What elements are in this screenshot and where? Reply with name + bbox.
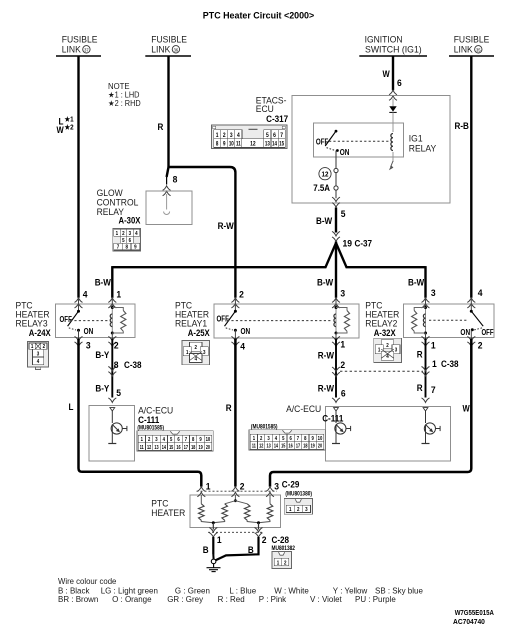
svg-text:2: 2 [386, 342, 389, 349]
svg-text:OFF: OFF [482, 327, 494, 337]
svg-text:2: 2 [240, 481, 245, 491]
svg-text:B-Y: B-Y [95, 350, 109, 361]
svg-text:19: 19 [198, 444, 203, 450]
svg-text:AC704740: AC704740 [453, 618, 485, 626]
svg-text:16: 16 [176, 444, 181, 450]
svg-text:1: 1 [216, 132, 219, 139]
svg-text:14: 14 [162, 444, 167, 450]
svg-text:BR : Brown: BR : Brown [58, 595, 99, 604]
svg-text:10: 10 [206, 437, 211, 444]
svg-text:1: 1 [116, 289, 121, 299]
svg-text:1: 1 [206, 481, 211, 491]
svg-text:W7G55E015A: W7G55E015A [455, 609, 494, 617]
svg-text:2: 2 [262, 535, 267, 545]
svg-text:7: 7 [280, 132, 283, 139]
svg-text:R-W: R-W [318, 350, 335, 361]
svg-text:9: 9 [134, 244, 137, 251]
svg-text:FUSIBLE: FUSIBLE [151, 34, 187, 44]
svg-text:2: 2 [148, 437, 151, 444]
svg-text:10: 10 [229, 141, 234, 148]
svg-text:1: 1 [186, 349, 189, 356]
svg-text:ON: ON [460, 327, 470, 337]
svg-text:2: 2 [194, 345, 197, 352]
svg-text:5: 5 [341, 209, 346, 219]
svg-text:4: 4 [240, 341, 245, 351]
svg-text:V : Violet: V : Violet [310, 595, 342, 604]
svg-text:5: 5 [266, 132, 269, 139]
svg-text:FUSIBLE: FUSIBLE [62, 34, 98, 44]
svg-text:★2 : RHD: ★2 : RHD [108, 99, 141, 108]
svg-text:LINK: LINK [151, 44, 170, 54]
svg-text:8: 8 [173, 174, 178, 184]
svg-text:6: 6 [273, 132, 276, 139]
svg-text:A-32X: A-32X [374, 328, 396, 339]
svg-text:14: 14 [274, 443, 279, 449]
svg-text:OFF: OFF [316, 136, 329, 146]
svg-text:B-W: B-W [317, 277, 334, 288]
svg-text:1: 1 [431, 340, 436, 350]
svg-text:PTC Heater Circuit <2000>: PTC Heater Circuit <2000> [203, 10, 314, 20]
svg-text:11: 11 [252, 443, 256, 449]
svg-text:2: 2 [478, 340, 483, 350]
svg-text:6: 6 [289, 436, 292, 443]
svg-text:LINK: LINK [454, 44, 473, 54]
svg-text:2: 2 [297, 507, 300, 514]
svg-text:7: 7 [297, 436, 300, 443]
svg-text:4: 4 [37, 359, 40, 366]
svg-text:18: 18 [191, 444, 196, 450]
svg-text:4: 4 [135, 230, 138, 237]
svg-text:B-W: B-W [408, 277, 425, 288]
svg-text:8: 8 [216, 141, 218, 148]
svg-text:O : Orange: O : Orange [112, 595, 152, 604]
svg-text:4: 4 [163, 437, 166, 444]
svg-text:ON: ON [84, 326, 94, 336]
svg-text:SWITCH (IG1): SWITCH (IG1) [365, 44, 422, 54]
svg-text:2: 2 [223, 132, 226, 139]
svg-text:A-25X: A-25X [188, 328, 210, 339]
svg-text:B-W: B-W [95, 277, 112, 288]
svg-text:R-B: R-B [455, 121, 469, 132]
svg-text:W: W [383, 69, 390, 80]
svg-text:8: 8 [114, 360, 119, 370]
svg-text:1: 1 [141, 437, 144, 444]
svg-text:6: 6 [397, 78, 402, 88]
svg-text:C-37: C-37 [355, 238, 373, 249]
svg-text:9: 9 [223, 141, 225, 148]
svg-text:LINK: LINK [62, 44, 81, 54]
svg-text:★2: ★2 [65, 123, 74, 131]
svg-text:2: 2 [114, 340, 119, 350]
svg-text:3: 3 [305, 507, 308, 514]
svg-text:35: 35 [476, 47, 481, 52]
svg-text:3: 3 [230, 132, 233, 139]
svg-text:FUSIBLE: FUSIBLE [454, 34, 490, 44]
svg-text:3: 3 [86, 340, 91, 350]
svg-text:11: 11 [140, 444, 144, 450]
svg-text:3: 3 [37, 351, 40, 358]
svg-text:8: 8 [125, 244, 128, 251]
svg-text:A/C-ECU: A/C-ECU [286, 404, 321, 414]
svg-text:37: 37 [84, 47, 89, 52]
svg-text:R: R [158, 122, 164, 133]
svg-text:A-30X: A-30X [119, 215, 141, 226]
svg-text:6: 6 [177, 437, 180, 444]
svg-text:RELAY: RELAY [409, 143, 437, 153]
svg-text:9: 9 [312, 436, 315, 443]
svg-text:4: 4 [83, 289, 88, 299]
svg-text:4: 4 [275, 436, 278, 443]
svg-text:ON: ON [241, 326, 251, 336]
svg-text:13: 13 [154, 444, 159, 450]
svg-text:12: 12 [259, 443, 264, 449]
svg-text:A-24X: A-24X [29, 328, 51, 339]
svg-text:8: 8 [192, 437, 195, 444]
svg-text:1: 1 [277, 560, 280, 567]
svg-text:C-29: C-29 [282, 479, 300, 490]
svg-text:13: 13 [266, 443, 271, 449]
svg-text:36: 36 [174, 47, 179, 52]
svg-text:C-317: C-317 [266, 114, 288, 125]
svg-text:3: 3 [340, 288, 345, 298]
svg-text:12: 12 [322, 171, 329, 179]
svg-text:C-28: C-28 [272, 534, 290, 545]
svg-text:3: 3 [155, 437, 158, 444]
svg-text:3: 3 [395, 347, 398, 354]
svg-text:B-Y: B-Y [95, 383, 109, 394]
svg-text:18: 18 [303, 443, 308, 449]
svg-text:7.5A: 7.5A [313, 183, 330, 194]
svg-text:ECU: ECU [256, 104, 274, 114]
svg-text:Wire colour code: Wire colour code [58, 577, 117, 586]
svg-text:9: 9 [199, 437, 202, 444]
svg-text:R-W: R-W [318, 383, 335, 394]
svg-text:R-W: R-W [218, 221, 235, 232]
svg-text:1: 1 [116, 230, 119, 237]
svg-text:B-W: B-W [316, 216, 333, 227]
svg-text:17: 17 [296, 443, 301, 449]
svg-text:C-111: C-111 [322, 413, 343, 424]
svg-text:19: 19 [311, 443, 316, 449]
svg-text:IGNITION: IGNITION [365, 34, 403, 44]
svg-text:7: 7 [117, 244, 120, 251]
svg-text:12: 12 [250, 141, 256, 148]
svg-text:13: 13 [265, 141, 270, 148]
svg-text:L: L [69, 401, 74, 412]
svg-text:(MU801380): (MU801380) [285, 491, 312, 498]
svg-text:C-111: C-111 [138, 414, 159, 425]
svg-text:15: 15 [169, 444, 174, 450]
svg-text:3: 3 [431, 288, 436, 298]
svg-text:R : Red: R : Red [218, 595, 245, 604]
svg-text:6: 6 [341, 388, 346, 398]
svg-text:1: 1 [340, 339, 345, 349]
svg-text:5: 5 [116, 388, 121, 398]
svg-text:R: R [417, 349, 423, 360]
svg-text:W: W [463, 403, 470, 414]
svg-text:19: 19 [343, 238, 353, 248]
svg-text:1: 1 [378, 347, 381, 354]
svg-text:14: 14 [272, 141, 277, 148]
svg-text:W: W [57, 124, 64, 135]
svg-text:8: 8 [304, 436, 307, 443]
svg-text:P : Pink: P : Pink [259, 595, 287, 604]
svg-text:3: 3 [267, 436, 270, 443]
svg-text:5: 5 [170, 437, 173, 444]
svg-text:15: 15 [279, 141, 284, 148]
svg-text:17: 17 [184, 444, 189, 450]
svg-text:HEATER: HEATER [151, 508, 185, 518]
svg-text:3: 3 [274, 481, 279, 491]
svg-text:PU : Purple: PU : Purple [355, 595, 396, 604]
svg-text:10: 10 [318, 436, 323, 443]
svg-text:R: R [226, 403, 232, 414]
svg-text:GR : Grey: GR : Grey [167, 595, 204, 604]
svg-text:2: 2 [260, 436, 263, 443]
svg-text:2: 2 [284, 560, 287, 567]
svg-text:15: 15 [281, 443, 286, 449]
svg-text:2: 2 [340, 360, 345, 370]
svg-text:2: 2 [239, 289, 244, 299]
svg-text:C-38: C-38 [441, 359, 459, 370]
svg-text:1: 1 [432, 359, 437, 369]
svg-text:ON: ON [340, 147, 350, 157]
svg-text:1: 1 [289, 507, 292, 514]
svg-text:3: 3 [203, 349, 206, 356]
svg-text:7: 7 [185, 437, 188, 444]
svg-text:16: 16 [289, 443, 294, 449]
svg-text:B: B [203, 545, 209, 556]
svg-text:11: 11 [236, 141, 241, 148]
svg-text:7: 7 [431, 385, 436, 395]
svg-text:1: 1 [253, 436, 256, 443]
svg-text:★1: ★1 [65, 115, 74, 123]
svg-text:5: 5 [282, 436, 285, 443]
svg-text:R: R [417, 383, 423, 394]
svg-text:C-38: C-38 [124, 360, 142, 371]
svg-text:20: 20 [206, 444, 211, 450]
svg-text:12: 12 [147, 444, 152, 450]
svg-text:IG1: IG1 [409, 133, 423, 143]
svg-text:1: 1 [217, 535, 222, 545]
svg-text:4: 4 [478, 288, 483, 298]
svg-text:20: 20 [318, 443, 323, 449]
